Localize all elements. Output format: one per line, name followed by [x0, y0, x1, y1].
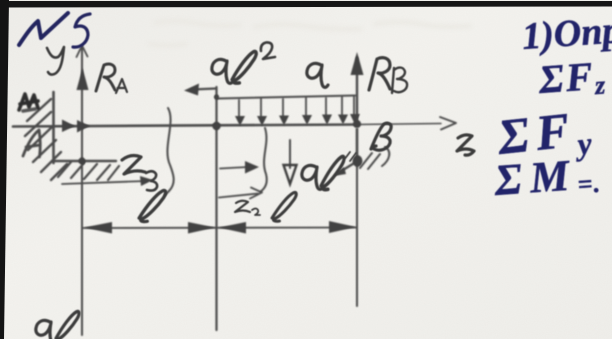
- svg-text:1)Опр: 1)Опр: [521, 9, 612, 58]
